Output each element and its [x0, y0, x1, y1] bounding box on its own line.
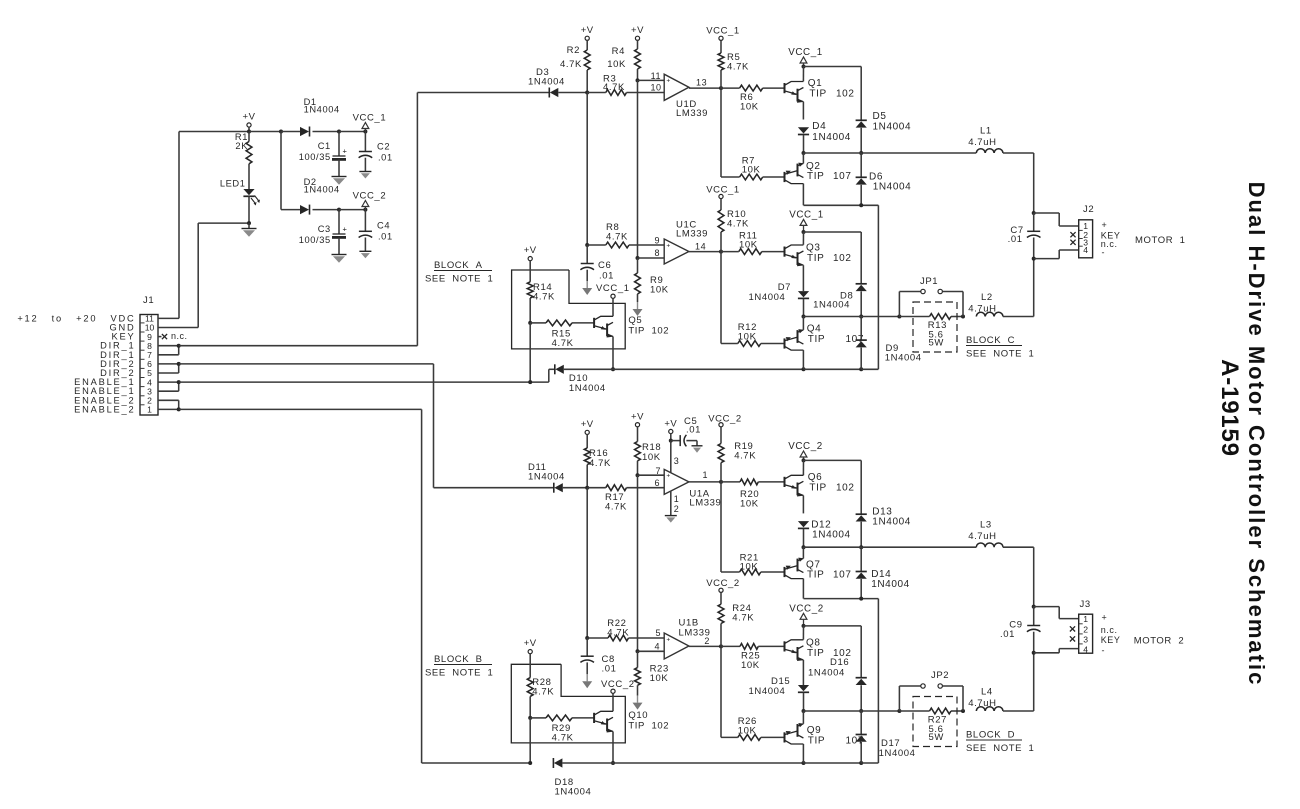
svg-text:+: + — [666, 242, 670, 249]
svg-text:TIP: TIP — [808, 736, 825, 747]
power flag VCC_1 above Q1 — [788, 47, 823, 67]
svg-text:Q5: Q5 — [628, 315, 642, 326]
svg-text:TIP: TIP — [808, 334, 825, 345]
diode D7 — [749, 282, 810, 317]
resistor R18 — [635, 442, 662, 478]
svg-text:L2: L2 — [981, 292, 993, 303]
svg-text:+: + — [666, 78, 670, 85]
label BLOCK C SEE NOTE 1 — [966, 335, 1034, 360]
diode D17 — [856, 711, 916, 763]
wire C9 node to J3 pin 4 — [1034, 649, 1079, 653]
resistor R9 — [635, 258, 669, 302]
svg-text:R4: R4 — [612, 46, 625, 57]
label U1C pin 9 — [654, 236, 660, 246]
wire Q8 emitter to D15 — [802, 660, 804, 685]
svg-text:Q4: Q4 — [807, 324, 822, 335]
wire Q6 emitter to D12 — [802, 496, 804, 514]
connector J1 — [140, 314, 158, 415]
transistor Q1 — [785, 78, 855, 103]
svg-text:LM339: LM339 — [676, 229, 708, 240]
svg-text:1N4004: 1N4004 — [749, 292, 786, 303]
wire R18 column to U1B pin 4 — [636, 475, 665, 653]
inductor L2 — [968, 259, 1033, 317]
svg-text:D5: D5 — [873, 111, 887, 122]
wire comparator column U1A to R21 — [720, 482, 722, 572]
connector J2 — [1079, 220, 1093, 258]
power tap arrow below C8 (VCC_2) — [582, 674, 634, 690]
label KEY (pin 9) — [111, 332, 135, 342]
wire C3 node to VCC_2 node — [339, 208, 367, 212]
resistor R4 — [607, 46, 640, 82]
svg-text:4.7K: 4.7K — [533, 292, 555, 303]
svg-text:2: 2 — [147, 396, 152, 406]
svg-text:1N4004: 1N4004 — [528, 77, 565, 88]
resistor R28 — [527, 677, 554, 720]
svg-text:2K: 2K — [235, 141, 248, 151]
svg-text:10K: 10K — [738, 332, 757, 343]
svg-text:102: 102 — [836, 482, 855, 493]
svg-text:.01: .01 — [686, 425, 701, 436]
svg-text:4.7K: 4.7K — [532, 687, 554, 698]
svg-text:5: 5 — [147, 368, 152, 378]
capacitor C2 — [359, 132, 393, 172]
resistor R29 — [530, 715, 594, 744]
svg-text:+V: +V — [631, 412, 644, 423]
enable rail (top half) — [613, 367, 878, 371]
wire comparator column U1C to R12 — [720, 252, 722, 344]
wire U1A output pin 1 — [689, 470, 723, 484]
svg-text:4.7K: 4.7K — [734, 451, 756, 462]
power flag VCC_2 above R24 — [706, 578, 740, 604]
diode D15 — [749, 676, 810, 711]
wire Q3 emitter to D7 — [802, 265, 804, 291]
svg-text:.01: .01 — [1000, 629, 1015, 640]
diode D2 — [300, 177, 340, 215]
diode D13 — [856, 507, 911, 548]
svg-text:4.7K: 4.7K — [727, 62, 749, 73]
svg-text:4.7uH: 4.7uH — [968, 304, 996, 315]
wire C7 node to J2 pin 1 — [1034, 213, 1079, 226]
svg-text:Q10: Q10 — [628, 710, 648, 721]
wire J1 pins 8,7 (DIR_1) to D3 — [158, 93, 549, 355]
power flag VCC_2 (top left) — [353, 191, 387, 210]
svg-text:107: 107 — [833, 570, 852, 581]
svg-text:5: 5 — [655, 628, 661, 638]
power flag VCC_1 above Q5 — [611, 294, 615, 316]
svg-text:VCC_1: VCC_1 — [788, 47, 823, 58]
svg-text:SEE NOTE 1: SEE NOTE 1 — [425, 274, 493, 285]
svg-text:n.c.: n.c. — [1101, 625, 1118, 635]
svg-text:1N4004: 1N4004 — [304, 184, 340, 194]
label BLOCK D SEE NOTE 1 — [966, 730, 1034, 755]
wire R4 to U1D pin 11 — [638, 71, 665, 81]
op-amp U1A — [664, 469, 721, 508]
wire J1 pin 11 to +V rail — [158, 132, 249, 319]
wire VCC_1 to Q1 collector — [802, 67, 804, 82]
capacitor C5 — [671, 416, 701, 446]
svg-text:VCC_2: VCC_2 — [708, 414, 742, 425]
svg-text:+: + — [343, 147, 348, 156]
svg-text:LM339: LM339 — [689, 498, 721, 509]
svg-text:2: 2 — [674, 504, 680, 514]
motor 2 B rail with junctions — [802, 709, 966, 713]
diode D6 — [856, 153, 912, 205]
svg-text:8: 8 — [147, 341, 152, 351]
svg-text:10K: 10K — [740, 102, 759, 113]
svg-text:n.c.: n.c. — [171, 331, 188, 341]
ground below LED1 — [242, 221, 257, 237]
wire VCC_1 rail to D5 column — [802, 65, 862, 121]
svg-text:+V: +V — [581, 25, 594, 36]
capacitor C6 — [580, 245, 614, 282]
power tap arrow below C6 (VCC_1) — [582, 281, 629, 295]
svg-text:+V: +V — [524, 245, 537, 256]
diode D12 — [798, 520, 851, 548]
jumper JP1 — [899, 276, 963, 317]
label U1B pin 5 — [655, 628, 661, 638]
svg-text:1: 1 — [703, 470, 709, 480]
svg-text:11: 11 — [651, 71, 661, 81]
svg-text:J1: J1 — [143, 295, 154, 306]
resistor R24 — [718, 603, 754, 646]
title A-19159 — [1216, 359, 1243, 457]
enable rail (bottom half) — [613, 761, 878, 765]
transistor Q7 — [785, 547, 852, 598]
wire J1 pins 2,1 (ENABLE_2) to D18 row — [158, 400, 530, 763]
svg-text:1N4004: 1N4004 — [808, 668, 845, 679]
label MOTOR 1 — [1135, 235, 1186, 246]
wire R16 column to R22 — [585, 488, 589, 640]
label J3 — [1080, 599, 1091, 610]
label U1D pin 10 — [650, 83, 661, 93]
svg-text:10K: 10K — [740, 562, 759, 573]
svg-text:4.7uH: 4.7uH — [968, 531, 996, 542]
svg-text:BLOCK D: BLOCK D — [966, 730, 1015, 741]
svg-text:MOTOR 1: MOTOR 1 — [1135, 235, 1186, 246]
svg-text:4: 4 — [1083, 644, 1088, 654]
svg-text:BLOCK B: BLOCK B — [434, 654, 483, 665]
no-connect markers J2 pins 2,3 — [1070, 232, 1075, 245]
resistor R3 — [587, 74, 664, 96]
capacitor C9 — [1000, 605, 1041, 655]
svg-text:MOTOR 2: MOTOR 2 — [1134, 635, 1185, 646]
svg-text:VCC_1: VCC_1 — [596, 283, 630, 294]
label DIR_2 (pin 5) — [100, 368, 135, 378]
svg-text:R2: R2 — [567, 45, 580, 56]
svg-text:1N4004: 1N4004 — [813, 300, 850, 311]
svg-text:.01: .01 — [602, 663, 617, 674]
svg-text:4.7K: 4.7K — [552, 338, 574, 349]
svg-text:TIP: TIP — [809, 482, 826, 493]
svg-text:VCC_1: VCC_1 — [706, 26, 740, 37]
svg-text:VCC_1: VCC_1 — [353, 113, 387, 124]
svg-text:1N4004: 1N4004 — [872, 517, 911, 528]
power +V above block A — [524, 245, 537, 282]
power +V above R2 — [581, 25, 594, 50]
diode D9 — [856, 317, 922, 370]
LED LED1 — [220, 179, 260, 224]
labels J3 + n.c. KEY - — [1101, 613, 1121, 656]
resistor R12 — [721, 322, 785, 346]
svg-text:Q1: Q1 — [808, 78, 823, 89]
wire VCC_2 to Q6 collector — [802, 460, 804, 475]
Q2 emitter rail to return column — [804, 203, 879, 369]
svg-text:.01: .01 — [1008, 234, 1023, 245]
svg-text:102: 102 — [833, 253, 852, 264]
power +V for U1A pin 3 — [664, 419, 679, 473]
Q7 emitter rail to return column — [804, 597, 879, 763]
resistor R11 — [721, 231, 785, 255]
capacitor C4 — [359, 210, 393, 252]
svg-text:7: 7 — [147, 350, 152, 360]
label DIR_1 (pin 8) — [100, 341, 135, 351]
power tap arrow below R23 (VCC_2) — [633, 696, 643, 710]
svg-text:11: 11 — [145, 314, 154, 324]
label GND (pin 10) — [109, 323, 135, 333]
diode D1 — [281, 97, 340, 137]
svg-text:.01: .01 — [378, 232, 393, 242]
svg-text:8: 8 — [654, 248, 660, 258]
resistor R22 — [587, 618, 664, 641]
transistor Q6 — [785, 472, 855, 497]
svg-text:9: 9 — [147, 332, 152, 342]
wire block B column to ENABLE_2 row — [528, 718, 532, 765]
svg-text:A-19159: A-19159 — [1216, 359, 1243, 457]
svg-text:J2: J2 — [1083, 204, 1094, 215]
svg-text:7: 7 — [655, 466, 661, 476]
power flag VCC_2 above Q10 — [611, 689, 615, 711]
wire VCC_2 rail to D13 column — [802, 458, 862, 514]
wire comparator column U1D to R7 — [720, 88, 722, 177]
svg-text:TIP 102: TIP 102 — [628, 721, 669, 732]
svg-text:LM339: LM339 — [676, 108, 708, 119]
power flag VCC_1 above Q3 — [789, 210, 824, 233]
svg-text:4.7K: 4.7K — [589, 458, 611, 469]
ground below C3 — [332, 255, 347, 263]
power flag VCC_1 above R10 — [706, 184, 740, 210]
wire J1 pin 10 to LED1 cathode node — [158, 223, 249, 327]
svg-text:10K: 10K — [740, 499, 759, 510]
svg-text:10K: 10K — [739, 240, 758, 251]
label J1 — [143, 295, 154, 306]
block B outline box — [511, 664, 625, 743]
label ENABLE_1 (pin 3) — [74, 386, 135, 396]
op-amp U1D — [664, 74, 708, 119]
block A outline box — [512, 270, 626, 349]
jumper JP2 — [899, 670, 963, 711]
svg-text:J3: J3 — [1080, 599, 1091, 610]
svg-text:TIP: TIP — [807, 253, 824, 264]
svg-text:+: + — [1102, 613, 1108, 623]
svg-text:10: 10 — [145, 323, 155, 333]
wire VCC_2 to Q8 collector — [802, 626, 804, 640]
svg-text:TIP: TIP — [809, 89, 826, 100]
power flag VCC_2 above Q8 — [789, 604, 824, 626]
op-amp U1B — [664, 617, 710, 659]
diode D5 — [856, 111, 912, 153]
label ENABLE_2 (pin 2) — [74, 395, 135, 405]
transistor Q4 — [785, 317, 865, 370]
svg-text:VCC_1: VCC_1 — [706, 184, 740, 195]
svg-text:C1: C1 — [318, 141, 331, 151]
label ENABLE_1 (pin 4) — [74, 377, 135, 387]
svg-text:-: - — [1102, 646, 1106, 656]
svg-text:10K: 10K — [741, 660, 760, 671]
power +V above R4 — [631, 25, 644, 49]
power +V above R18 — [631, 412, 644, 442]
svg-text:C3: C3 — [318, 224, 331, 234]
resistor R27 — [928, 708, 951, 743]
svg-text:1N4004: 1N4004 — [812, 530, 851, 541]
motor 1 A rail with junctions — [802, 151, 977, 155]
inductor L3 — [968, 520, 1033, 607]
ground below C1 — [332, 177, 347, 185]
svg-text:107: 107 — [833, 171, 852, 182]
power flag VCC_1 above R5 — [706, 26, 740, 54]
svg-text:+: + — [666, 473, 670, 480]
svg-text:5W: 5W — [929, 338, 944, 349]
svg-text:6: 6 — [147, 359, 152, 369]
svg-text:VCC_2: VCC_2 — [706, 578, 740, 589]
power flag VCC_2 above R19 — [708, 414, 742, 444]
svg-text:+V: +V — [524, 638, 537, 649]
resistor R25 — [721, 644, 785, 672]
svg-text:1N4004: 1N4004 — [749, 686, 786, 697]
resistor R5 — [718, 52, 749, 88]
svg-text:4.7K: 4.7K — [605, 502, 627, 513]
label ENABLE_2 (pin 1) — [74, 404, 135, 414]
dashed box BLOCK D around R27 — [913, 697, 957, 747]
svg-text:10K: 10K — [642, 452, 661, 463]
svg-text:JP1: JP1 — [920, 276, 938, 287]
svg-text:14: 14 — [695, 242, 706, 252]
inductor L1 — [968, 126, 1033, 214]
svg-text:4.7K: 4.7K — [560, 59, 582, 70]
svg-text:+: + — [666, 636, 670, 643]
svg-text:VCC_2: VCC_2 — [788, 441, 823, 452]
svg-text:4: 4 — [147, 377, 152, 387]
op-amp U1C — [664, 220, 708, 265]
ground below C4 — [359, 251, 371, 258]
svg-text:+V: +V — [664, 419, 677, 430]
resistor R14 — [527, 282, 555, 325]
resistor R19 — [718, 441, 756, 482]
svg-text:3: 3 — [1083, 634, 1088, 644]
inductor L4 — [968, 653, 1033, 711]
label MOTOR 2 — [1134, 635, 1185, 646]
svg-text:Q3: Q3 — [806, 243, 821, 254]
diode D8 — [813, 284, 867, 317]
diode D3 — [528, 67, 587, 98]
svg-text:4.7uH: 4.7uH — [968, 137, 996, 148]
svg-text:JP2: JP2 — [931, 670, 949, 681]
svg-text:1: 1 — [147, 405, 152, 415]
svg-text:4.7K: 4.7K — [552, 733, 574, 744]
diode D16 — [808, 657, 867, 711]
wire Q1 emitter to D4 — [802, 102, 804, 120]
power +V above block B — [524, 638, 537, 678]
title Dual H-Drive Motor Controller Schematic — [1244, 182, 1269, 687]
wire R18 to U1A pin 7 — [638, 466, 665, 476]
power +V node — [243, 112, 256, 134]
svg-text:BLOCK C: BLOCK C — [966, 335, 1015, 346]
svg-text:L4: L4 — [981, 687, 993, 698]
svg-text:1N4004: 1N4004 — [812, 132, 851, 143]
svg-text:4.7K: 4.7K — [732, 613, 754, 624]
svg-text:L3: L3 — [980, 520, 992, 531]
svg-text:Q6: Q6 — [808, 472, 823, 483]
wire C1 node to VCC_1 node — [339, 130, 367, 134]
svg-text:.01: .01 — [599, 271, 614, 282]
wire +V rail to D1/D2 branch — [249, 130, 300, 210]
diode D14 — [856, 547, 910, 598]
svg-text:VCC_2: VCC_2 — [601, 679, 635, 690]
svg-text:1N4004: 1N4004 — [528, 472, 565, 483]
svg-text:Q8: Q8 — [806, 637, 821, 648]
wire Q5 emitter to enable rail — [611, 337, 615, 372]
wire J1 pins 6,5 (DIR_2) to D11 — [158, 362, 554, 488]
svg-text:13: 13 — [696, 78, 707, 88]
connector J3 — [1079, 614, 1093, 654]
svg-text:+: + — [1102, 220, 1108, 230]
wire VCC_1 rail3 to D8 column — [802, 230, 862, 284]
svg-text:1: 1 — [1083, 614, 1088, 624]
svg-text:2: 2 — [704, 636, 710, 646]
svg-text:100/35: 100/35 — [299, 152, 331, 162]
svg-text:+V: +V — [631, 25, 644, 36]
wire U1D output pin 13 — [689, 78, 723, 91]
label +12 to +20 VDC (pin 11) — [17, 313, 135, 323]
label DIR_2 (pin 6) — [100, 359, 135, 369]
wire R2 column to R8 — [585, 93, 589, 248]
svg-text:TIP: TIP — [807, 570, 824, 581]
svg-text:5W: 5W — [929, 732, 944, 743]
resistor R2 — [560, 45, 590, 95]
diode D11 — [528, 462, 587, 493]
svg-text:4.7K: 4.7K — [607, 628, 629, 639]
svg-text:4.7uH: 4.7uH — [968, 698, 996, 709]
svg-text:1: 1 — [674, 494, 680, 504]
svg-text:LED1: LED1 — [220, 179, 246, 189]
svg-text:SEE NOTE 1: SEE NOTE 1 — [966, 349, 1034, 360]
transistor Q10 — [594, 710, 669, 733]
svg-text:VCC_2: VCC_2 — [789, 604, 824, 615]
label BLOCK B SEE NOTE 1 — [425, 654, 493, 679]
svg-text:L1: L1 — [980, 126, 992, 137]
svg-text:2: 2 — [1083, 624, 1088, 634]
wire VCC_1 to Q3 collector — [802, 232, 804, 245]
svg-text:4: 4 — [1083, 245, 1088, 255]
transistor Q3 — [785, 243, 852, 267]
wire U1B output pin 2 — [689, 636, 723, 648]
svg-text:10: 10 — [650, 83, 661, 93]
power flag VCC_1 (top left) — [353, 113, 387, 132]
resistor R13 — [928, 314, 951, 349]
ground for C5 — [692, 446, 703, 453]
svg-text:ENABLE_2: ENABLE_2 — [74, 404, 135, 414]
wire U1C output pin 14 — [689, 242, 723, 254]
svg-text:C6: C6 — [598, 260, 611, 271]
svg-text:10K: 10K — [650, 285, 669, 296]
svg-text:C2: C2 — [377, 141, 390, 151]
resistor R1 — [235, 132, 252, 190]
resistor R16 — [584, 448, 611, 490]
svg-text:VCC_2: VCC_2 — [353, 191, 387, 202]
svg-text:TIP: TIP — [807, 171, 824, 182]
no-connect marker pin 9 (n.c.) — [158, 331, 188, 341]
svg-text:10K: 10K — [738, 726, 757, 737]
power +V above R16 — [581, 419, 594, 448]
